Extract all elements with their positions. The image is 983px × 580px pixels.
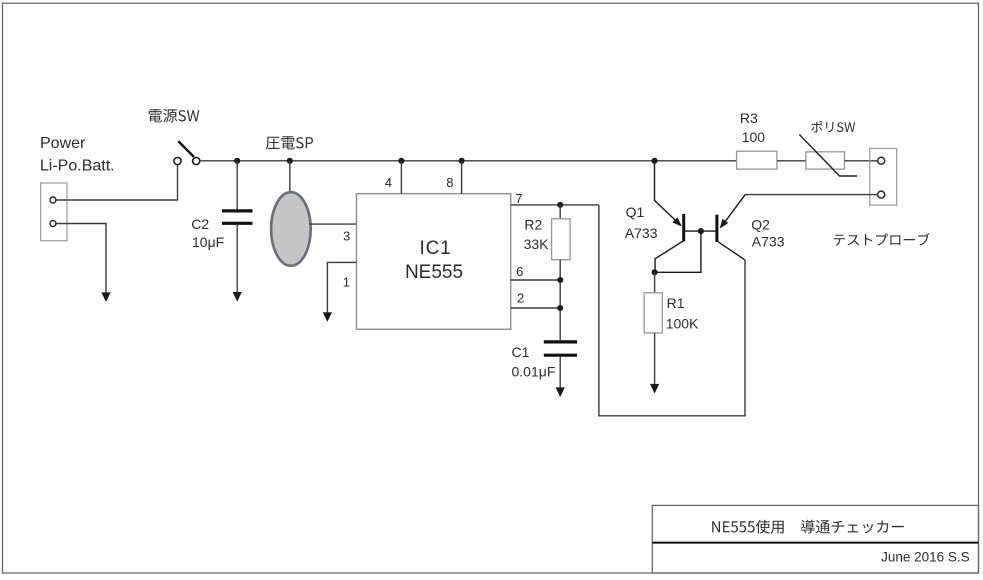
wire pin 1 to ground: [323, 262, 357, 321]
title NE555使用 導通チェッカー: [712, 520, 904, 534]
svg-text:IC1: IC1: [420, 238, 452, 259]
svg-text:R3: R3: [740, 110, 758, 126]
svg-text:10μF: 10μF: [192, 234, 224, 250]
capacitor C2: [222, 211, 253, 223]
probe connector J2 テストプローブ: [870, 148, 897, 205]
wire pin 4: [400, 161, 402, 194]
svg-text:7: 7: [515, 191, 522, 206]
node junction pin4: [398, 158, 404, 164]
label 電源SW (power switch): [149, 109, 200, 123]
svg-text:NE555: NE555: [405, 262, 463, 283]
resistor R3: [737, 151, 777, 169]
label 圧電SP (piezo speaker): [266, 136, 313, 149]
svg-text:R2: R2: [524, 216, 542, 232]
svg-text:100: 100: [742, 129, 766, 145]
wire pin7 feedback to Q2 collector: [599, 205, 745, 416]
node junction pin8: [459, 158, 465, 164]
wire C2 to ground: [233, 225, 242, 302]
op-amp timer IC1 NE555: [357, 194, 511, 330]
battery connector J1 Power Li-Po.Batt.: [41, 183, 67, 241]
resistor R1: [644, 293, 662, 333]
node junction pin7/R2: [557, 202, 563, 208]
wire node to R1: [654, 272, 656, 293]
svg-text:2: 2: [517, 290, 524, 305]
svg-text:Q1: Q1: [626, 204, 645, 220]
wire probe 2 to Q2 emitter: [745, 194, 878, 196]
transistor Q2 A733: [717, 195, 745, 260]
transistor Q1 A733: [655, 161, 684, 272]
wire rail to C2: [236, 161, 238, 210]
svg-text:A733: A733: [625, 225, 658, 241]
svg-text:Q2: Q2: [751, 216, 770, 232]
node junction speaker: [287, 158, 293, 164]
label ポリSW (polyswitch): [811, 121, 855, 133]
svg-text:C2: C2: [191, 216, 209, 232]
svg-text:R1: R1: [667, 295, 685, 311]
svg-text:June 2016 S.S: June 2016 S.S: [881, 549, 970, 564]
svg-text:3: 3: [343, 229, 350, 244]
svg-text:6: 6: [516, 264, 523, 279]
capacitor C1: [544, 342, 577, 355]
wire pin 2: [511, 307, 561, 309]
svg-text:8: 8: [446, 175, 453, 190]
wire rail to speaker: [289, 161, 291, 193]
wire C1 to ground: [556, 357, 565, 397]
node junction pin6: [557, 277, 563, 283]
wire speaker to pin 3: [309, 223, 357, 225]
wire Q1 base to Q2 base: [685, 230, 716, 232]
wire battery plus to switch: [56, 165, 177, 200]
piezo speaker SP 圧電SP: [271, 192, 311, 266]
svg-text:4: 4: [385, 175, 392, 190]
svg-text:0.01μF: 0.01μF: [512, 364, 556, 380]
resistor R2: [552, 219, 571, 260]
switch SW1 電源SW: [174, 141, 200, 164]
node junction C2: [234, 158, 240, 164]
svg-text:A733: A733: [752, 234, 785, 250]
node junction Q1 emitter: [651, 158, 657, 164]
wire pin 7: [511, 204, 599, 206]
svg-text:100K: 100K: [666, 316, 699, 332]
wire R1 to ground: [650, 333, 659, 394]
node junction R1 top: [652, 269, 658, 275]
node junction base link: [698, 228, 704, 234]
wire battery minus to ground: [56, 224, 110, 303]
title block box: [652, 505, 978, 573]
wire polyswitch to probe connector: [845, 160, 878, 162]
wire pin 6: [511, 279, 561, 281]
svg-text:1: 1: [343, 275, 350, 290]
wire R2 to C1: [559, 260, 561, 341]
polyswitch F1 ポリSW: [799, 135, 857, 177]
node junction pin2: [557, 305, 563, 311]
svg-text:Li-Po.Batt.: Li-Po.Batt.: [40, 158, 115, 175]
label テストプローブ (test probe): [834, 233, 930, 246]
wire pin 8: [461, 161, 463, 194]
wire pin7 node to R2: [559, 205, 561, 219]
svg-text:C1: C1: [512, 344, 530, 360]
wire base node down to R1 node: [655, 231, 701, 272]
svg-text:33K: 33K: [524, 236, 550, 252]
wire V+ top rail: [200, 160, 737, 162]
wire R3 to polyswitch: [777, 160, 806, 162]
svg-text:Power: Power: [40, 135, 86, 152]
